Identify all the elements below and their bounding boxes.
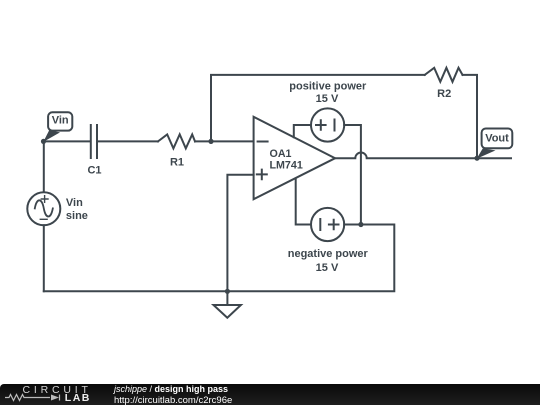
svg-text:Vin: Vin (66, 197, 83, 209)
svg-text:15 V: 15 V (316, 93, 339, 105)
svg-text:LM741: LM741 (270, 160, 303, 172)
svg-text:sine: sine (66, 210, 88, 222)
svg-text:R2: R2 (437, 88, 451, 100)
svg-text:R1: R1 (170, 157, 184, 169)
svg-text:negative power: negative power (288, 248, 369, 260)
svg-text:positive power: positive power (289, 80, 367, 92)
svg-text:C1: C1 (87, 165, 101, 177)
svg-text:Vin: Vin (52, 115, 69, 127)
svg-text:OA1: OA1 (270, 148, 292, 160)
svg-text:Vout: Vout (485, 132, 509, 144)
svg-text:15 V: 15 V (316, 262, 339, 274)
